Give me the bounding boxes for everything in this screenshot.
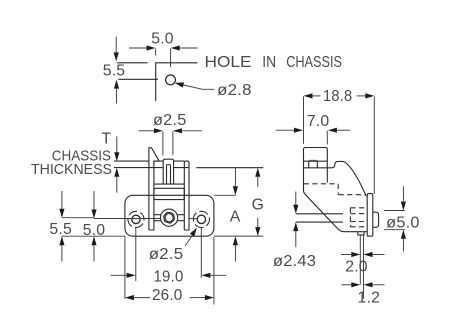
clip right prong	[184, 161, 189, 230]
leader to ø2.8	[175, 82, 215, 89]
right mounting hole	[197, 215, 205, 223]
block right edge hidden continuation	[326, 178, 328, 184]
hidden line lower	[339, 194, 366, 196]
base bottom extension left	[61, 235, 125, 237]
svg-text:THICKNESS: THICKNESS	[31, 161, 112, 178]
dimension 5.5 / 5.0 up arrows	[59, 236, 96, 261]
center nut outer circle	[161, 209, 178, 226]
hole ø2.8 circle	[166, 75, 176, 85]
side body: top block	[304, 148, 328, 192]
svg-text:1.2: 1.2	[358, 289, 381, 306]
svg-text:ø2.5: ø2.5	[149, 246, 184, 263]
clip crossbar	[154, 188, 184, 199]
side barb bump	[309, 161, 318, 168]
plate bottom extension right	[214, 235, 263, 237]
plate left extension down	[124, 236, 126, 299]
leader ø2.5 to right hole	[185, 228, 197, 247]
side step and plateau and right diagonal	[332, 161, 367, 196]
svg-text:HOLE: HOLE	[205, 54, 252, 71]
svg-text:A: A	[230, 209, 241, 226]
dimension 2.0	[341, 252, 385, 257]
svg-text:26.0: 26.0	[152, 287, 183, 304]
dimension 5.5 arrows	[114, 37, 120, 104]
dimension ø2.43 arrow	[293, 192, 298, 248]
side left diagonal and bottom	[304, 191, 368, 232]
svg-text:CHASSIS: CHASSIS	[286, 54, 342, 71]
hidden nut lines	[350, 208, 367, 227]
dimension 1.2	[342, 282, 385, 287]
svg-text:G: G	[252, 197, 265, 214]
dimension ø5.0 lines	[384, 186, 406, 251]
left hole dashed circle	[125, 208, 147, 230]
plate top extension right	[214, 194, 236, 196]
tab extension lines	[360, 235, 363, 299]
side chassis lines	[304, 161, 332, 168]
chassis corner edge lines	[117, 62, 147, 64]
base plate	[125, 195, 214, 236]
center nut hexagon	[164, 212, 175, 223]
dimension 26.0	[125, 295, 214, 300]
dimension T arrows	[114, 136, 119, 192]
clip bottom connector	[154, 183, 184, 185]
chassis section bottom line	[114, 167, 263, 169]
svg-text:T: T	[101, 130, 111, 147]
svg-text:5.5: 5.5	[49, 221, 72, 238]
left mounting hole	[132, 215, 140, 223]
ø2.43 hole line	[296, 214, 343, 222]
dimension 5.5 / 5.0 down arrows	[59, 191, 96, 219]
svg-text:ø2.43: ø2.43	[273, 253, 316, 270]
nut side tabs	[154, 215, 184, 221]
svg-text:ø5.0: ø5.0	[386, 214, 419, 231]
svg-text:ø2.5: ø2.5	[153, 112, 187, 129]
svg-text:18.8: 18.8	[323, 88, 352, 105]
svg-text:IN: IN	[262, 54, 276, 71]
hidden step	[337, 184, 339, 195]
clip left snap prong	[149, 148, 159, 230]
hidden line upper	[304, 183, 339, 185]
dimension A arrows	[233, 168, 238, 262]
dimension 19.0	[111, 273, 227, 278]
clip center slot	[167, 165, 171, 185]
chassis section top line	[114, 160, 184, 162]
svg-text:7.0: 7.0	[307, 113, 330, 130]
right hole extension line down	[200, 228, 202, 278]
dimension 7.0	[276, 128, 350, 145]
svg-text:2.0: 2.0	[345, 259, 368, 276]
clip center tube	[163, 159, 173, 184]
dimension 18.8	[304, 93, 375, 194]
right hole dashed circle	[191, 209, 211, 229]
dimension 5.0 lines and arrows	[129, 45, 198, 67]
svg-text:19.0: 19.0	[154, 269, 184, 286]
left hole extension line down	[135, 228, 137, 281]
svg-text:5.0: 5.0	[151, 31, 174, 48]
hole-center leader line (left)	[62, 217, 198, 220]
bottom tab	[358, 232, 364, 235]
svg-text:5.5: 5.5	[103, 63, 126, 80]
dimension ø2.5 top lines	[139, 128, 202, 155]
knob	[373, 212, 379, 227]
plate right extension down	[213, 237, 215, 305]
center nut inner circle	[165, 214, 173, 222]
boss slab	[367, 194, 373, 237]
svg-text:ø2.8: ø2.8	[217, 82, 252, 99]
dimension G arrows	[255, 168, 260, 236]
